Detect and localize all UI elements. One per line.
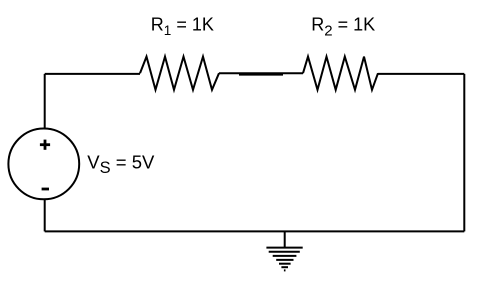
wire middle overlapping segment (thickened join) [239,74,283,76]
ground stub wire [284,231,286,247]
wire top-right horizontal segment [378,73,464,75]
wire right vertical segment [463,74,465,232]
ground symbol [266,248,302,271]
svg-text:R2 = 1K: R2 = 1K [311,15,375,40]
svg-text:VS = 5V: VS = 5V [87,152,155,177]
resistor R1 [140,57,219,90]
wire middle horizontal segment between R1 and R2 [219,72,303,74]
voltage source minus sign [42,188,49,191]
wire bottom horizontal segment [45,230,465,232]
voltage source plus sign [40,140,50,150]
wire top-left horizontal segment [45,73,140,75]
wire left vertical upper segment [44,74,46,129]
voltage source VS circle [8,129,79,200]
resistor R2 [303,57,378,90]
wire left vertical lower segment [44,199,46,231]
svg-text:R1 = 1K: R1 = 1K [151,15,214,38]
